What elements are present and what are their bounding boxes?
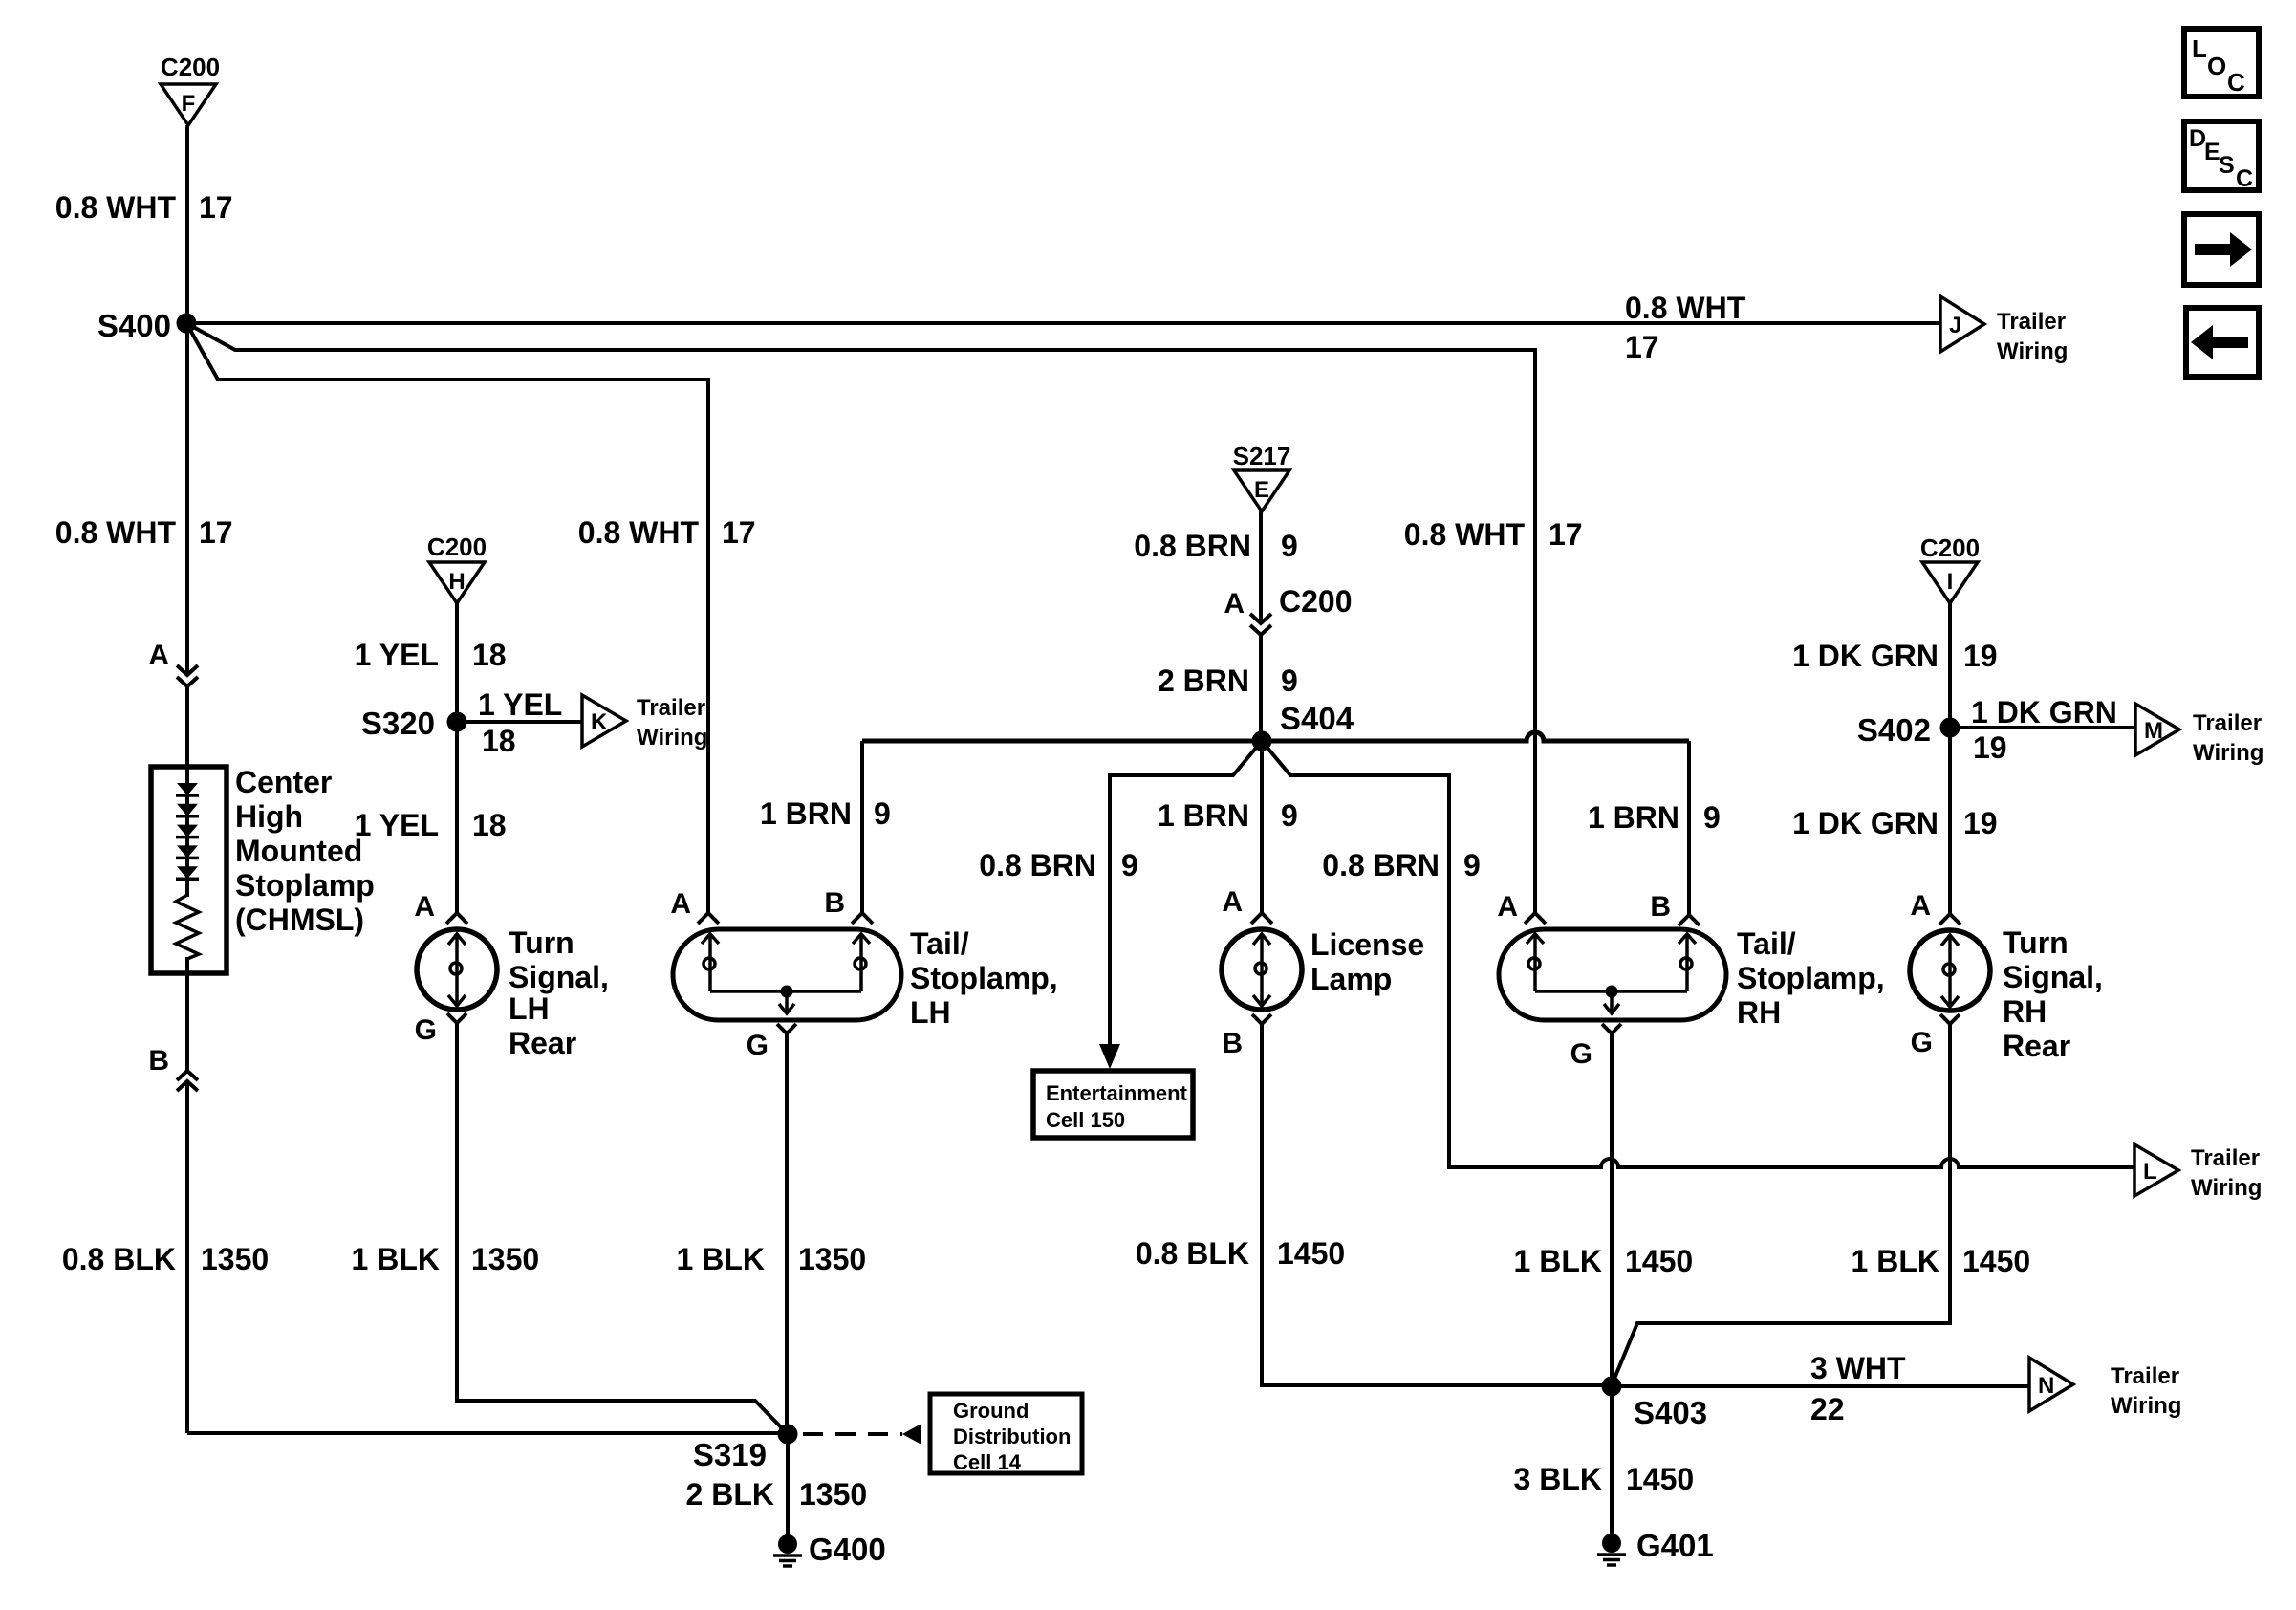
back arrow legend box: [2186, 308, 2259, 377]
svg-text:B: B: [1222, 1028, 1243, 1059]
svg-text:N: N: [2038, 1373, 2054, 1399]
svg-text:Turn: Turn: [2003, 925, 2069, 960]
wire 1 BLK 1350 from turn signal LH to S319: [457, 1023, 788, 1434]
CHMSL LED diodes: [177, 783, 198, 795]
tail stoplamp RH filament A: [1533, 934, 1537, 991]
tail stoplamp RH filament B: [1685, 934, 1689, 991]
entertainment cell 150 box: [1033, 1071, 1193, 1138]
svg-text:A: A: [1224, 588, 1245, 620]
svg-text:A: A: [148, 640, 169, 671]
splice S320: [447, 712, 467, 732]
svg-text:0.8 BRN: 0.8 BRN: [1322, 848, 1440, 882]
DESC legend box: [2184, 121, 2259, 190]
wire from resistor to connector B: [185, 957, 189, 1071]
svg-text:17: 17: [199, 515, 233, 550]
splice S402: [1940, 718, 1960, 738]
svg-text:G: G: [747, 1030, 769, 1061]
svg-text:A: A: [414, 891, 435, 923]
svg-text:0.8 BLK: 0.8 BLK: [1136, 1236, 1249, 1271]
svg-text:0.8 BRN: 0.8 BRN: [1134, 529, 1251, 563]
svg-text:G401: G401: [1636, 1528, 1714, 1563]
svg-text:C: C: [2236, 165, 2253, 192]
svg-text:0.8 WHT: 0.8 WHT: [578, 515, 700, 550]
wire 0.8 BLK 1450 from license lamp to S403: [1262, 1024, 1612, 1385]
wire 0.8 WHT 17 from S400 to tail stoplamp RH feed: [186, 323, 1535, 913]
svg-text:0.8 WHT: 0.8 WHT: [1404, 517, 1526, 552]
trailer wiring connector N: [2029, 1358, 2073, 1411]
svg-text:Wiring: Wiring: [1997, 338, 2068, 364]
svg-text:High: High: [235, 799, 303, 834]
svg-text:18: 18: [472, 638, 507, 672]
turn signal RH rear lamp: [1910, 930, 1990, 1011]
svg-text:Trailer: Trailer: [2193, 710, 2262, 736]
svg-text:A: A: [1910, 890, 1931, 922]
svg-text:1350: 1350: [471, 1242, 539, 1276]
svg-text:B: B: [1650, 891, 1671, 923]
wire 1 BRN 9 from S404 to license lamp A: [1260, 741, 1264, 913]
svg-text:1 BLK: 1 BLK: [677, 1242, 765, 1276]
svg-text:Lamp: Lamp: [1310, 962, 1392, 996]
svg-text:1 BLK: 1 BLK: [1514, 1244, 1602, 1278]
svg-text:2 BRN: 2 BRN: [1158, 664, 1249, 698]
svg-text:Wiring: Wiring: [2111, 1393, 2181, 1419]
svg-text:1 YEL: 1 YEL: [355, 638, 439, 672]
svg-text:S402: S402: [1857, 712, 1931, 748]
svg-text:Wiring: Wiring: [2191, 1175, 2262, 1201]
tail stoplamp RH oval housing: [1499, 929, 1726, 1020]
svg-text:LH: LH: [509, 991, 550, 1026]
svg-text:1350: 1350: [799, 1477, 867, 1512]
svg-text:(CHMSL): (CHMSL): [235, 903, 364, 937]
LOC legend box: [2184, 29, 2259, 97]
svg-text:3 BLK: 3 BLK: [1514, 1462, 1602, 1496]
svg-text:Tail/: Tail/: [1737, 926, 1796, 961]
svg-text:1450: 1450: [1277, 1236, 1345, 1271]
svg-text:1 BRN: 1 BRN: [1588, 800, 1679, 835]
svg-text:B: B: [148, 1045, 169, 1077]
svg-text:1 DK GRN: 1 DK GRN: [1792, 806, 1939, 840]
wire 0.8 BRN 9 from S404 to entertainment cell: [1110, 741, 1262, 1046]
svg-text:17: 17: [1549, 517, 1583, 552]
svg-text:0.8 BRN: 0.8 BRN: [979, 848, 1096, 882]
svg-text:9: 9: [1281, 529, 1298, 563]
wire 1 DK GRN 19 from C200-I to S402: [1948, 603, 1952, 728]
svg-text:1 BLK: 1 BLK: [352, 1242, 440, 1276]
turn signal LH rear lamp: [417, 929, 497, 1010]
svg-text:19: 19: [1963, 806, 1998, 840]
wire 0.8 WHT 17 from S400 to trailer wiring J: [186, 321, 1940, 325]
svg-text:S404: S404: [1280, 701, 1354, 736]
wire 0.8 WHT 17 from S400 to tail stoplamp LH feed: [186, 323, 708, 913]
svg-text:1450: 1450: [1625, 1244, 1693, 1278]
svg-text:1350: 1350: [798, 1242, 866, 1276]
svg-text:Turn: Turn: [509, 925, 574, 960]
wire 0.8 BLK 1350 from CHMSL-B to S319: [185, 1081, 189, 1433]
splice S319: [778, 1425, 798, 1445]
trailer wiring connector K: [582, 695, 626, 747]
svg-text:1350: 1350: [201, 1242, 269, 1276]
svg-text:0.8 WHT: 0.8 WHT: [55, 190, 177, 225]
svg-text:L: L: [2192, 34, 2207, 63]
wire 2 BLK 1350 from S319 to G400: [786, 1434, 790, 1543]
svg-text:License: License: [1310, 927, 1424, 962]
svg-text:22: 22: [1810, 1392, 1845, 1426]
wire 1 BRN 9 drop to tail stoplamp LH B: [860, 741, 864, 913]
svg-text:3 WHT: 3 WHT: [1810, 1351, 1906, 1385]
wire 2 BRN 9 from C200 to S404: [1259, 635, 1263, 741]
svg-text:Cell 150: Cell 150: [1046, 1108, 1125, 1132]
svg-text:Wiring: Wiring: [2193, 740, 2264, 766]
svg-text:1 BRN: 1 BRN: [1158, 798, 1249, 833]
svg-text:Entertainment: Entertainment: [1046, 1081, 1188, 1105]
wire 1 DK GRN 19 from S402 to turn signal RH: [1948, 728, 1952, 914]
svg-text:Cell 14: Cell 14: [953, 1450, 1022, 1474]
svg-text:RH: RH: [1737, 995, 1781, 1030]
svg-text:Mounted: Mounted: [235, 834, 362, 868]
svg-text:2 BLK: 2 BLK: [686, 1477, 774, 1512]
wire 1 BLK 1350 from tail stoplamp LH to S319: [785, 1033, 789, 1434]
svg-text:0.8 WHT: 0.8 WHT: [1625, 291, 1746, 325]
ground distribution cell 14 box: [930, 1394, 1082, 1473]
wire 2 BRN 9 bus S404 with hop over RH feed: [862, 732, 1689, 741]
svg-text:Wiring: Wiring: [637, 725, 707, 751]
svg-text:C200: C200: [1920, 533, 1980, 562]
wire 3 BLK 1450 from S403 to G401: [1610, 1386, 1614, 1543]
tail stoplamp LH oval housing: [673, 929, 901, 1020]
wire 1 BLK 1450 from turn signal RH to S403: [1612, 1024, 1950, 1385]
svg-text:M: M: [2144, 718, 2163, 744]
svg-text:9: 9: [1121, 848, 1138, 882]
svg-text:Ground: Ground: [953, 1399, 1029, 1423]
svg-text:O: O: [2207, 52, 2226, 80]
license lamp: [1222, 929, 1302, 1010]
svg-text:K: K: [591, 709, 608, 735]
svg-text:Rear: Rear: [2003, 1029, 2070, 1063]
center high mounted stoplamp CHMSL box: [151, 767, 227, 973]
svg-text:LH: LH: [910, 995, 951, 1030]
wire 1 BLK 1450 from tail stoplamp RH to S403: [1610, 1033, 1614, 1386]
svg-text:0.8 WHT: 0.8 WHT: [55, 515, 177, 550]
svg-text:RH: RH: [2003, 994, 2047, 1029]
trailer wiring connector M: [2135, 704, 2179, 755]
wire 0.8 BRN 9 from S217-E: [1259, 511, 1263, 623]
svg-text:Trailer: Trailer: [2191, 1145, 2260, 1171]
wire 0.8 WHT 17 from S400 down to CHMSL connector A: [185, 323, 189, 675]
svg-text:Stoplamp: Stoplamp: [235, 868, 375, 903]
dashed reference to ground distribution: [803, 1432, 902, 1436]
svg-text:19: 19: [1973, 730, 2007, 765]
svg-text:9: 9: [1463, 848, 1481, 882]
svg-text:18: 18: [482, 724, 516, 758]
wire 1 YEL 18 from C200-H to S320: [455, 603, 459, 722]
svg-text:G: G: [1911, 1027, 1933, 1058]
trailer wiring connector J: [1940, 296, 1984, 352]
wire into CHMSL lamp: [185, 686, 189, 897]
svg-text:Tail/: Tail/: [910, 926, 969, 961]
svg-text:Trailer: Trailer: [637, 695, 705, 721]
svg-text:9: 9: [1703, 800, 1721, 835]
svg-text:1450: 1450: [1626, 1462, 1694, 1496]
svg-text:C: C: [2227, 68, 2245, 97]
svg-text:S400: S400: [97, 308, 171, 343]
wire 3 WHT 22 from S403 to trailer wiring N: [1612, 1384, 2029, 1388]
svg-text:1 DK GRN: 1 DK GRN: [1971, 695, 2117, 729]
svg-text:Center: Center: [235, 765, 332, 799]
svg-text:Distribution: Distribution: [953, 1425, 1071, 1448]
svg-text:A: A: [670, 888, 691, 920]
svg-text:Signal,: Signal,: [2003, 960, 2103, 994]
splice S400: [177, 314, 197, 334]
tail stoplamp RH internal bus and ground lead: [1535, 990, 1687, 993]
svg-text:Rear: Rear: [509, 1026, 576, 1060]
CHMSL resistor zigzag: [176, 895, 199, 959]
svg-text:Stoplamp,: Stoplamp,: [1737, 961, 1885, 995]
svg-text:Signal,: Signal,: [509, 960, 609, 994]
splice S403: [1602, 1377, 1622, 1397]
svg-text:L: L: [2143, 1159, 2157, 1185]
svg-text:S320: S320: [361, 706, 435, 741]
trailer wiring connector L: [2134, 1144, 2178, 1196]
wire 1 BRN 9 drop to tail stoplamp RH B: [1687, 741, 1691, 915]
ground G400: [778, 1534, 797, 1554]
forward arrow legend box: [2184, 214, 2259, 285]
svg-text:A: A: [1497, 891, 1518, 923]
tail stoplamp LH filament A: [708, 934, 712, 991]
svg-text:G400: G400: [809, 1532, 886, 1567]
tail stoplamp LH filament B: [859, 934, 863, 991]
wire 1 YEL 18 from S320 to trailer wiring K: [457, 720, 582, 724]
svg-text:C200: C200: [161, 53, 220, 81]
svg-text:9: 9: [1281, 664, 1298, 698]
svg-text:1 BRN: 1 BRN: [760, 796, 852, 831]
svg-text:H: H: [448, 569, 465, 595]
svg-text:18: 18: [472, 808, 507, 842]
svg-text:S319: S319: [693, 1437, 767, 1472]
svg-text:19: 19: [1963, 639, 1998, 673]
wire 0.8 WHT 17 from C200-F to S400: [185, 125, 189, 323]
svg-text:17: 17: [199, 190, 233, 225]
svg-text:G: G: [415, 1014, 437, 1046]
svg-text:1 DK GRN: 1 DK GRN: [1792, 639, 1939, 673]
wire 0.8 BRN 9 from S404 to trailer wiring L: [1262, 741, 2134, 1167]
wire 1 YEL 18 from S320 to turn signal LH: [455, 722, 459, 913]
svg-text:G: G: [1570, 1038, 1592, 1070]
svg-text:F: F: [182, 91, 196, 117]
svg-text:I: I: [1947, 569, 1954, 595]
svg-text:1 BLK: 1 BLK: [1852, 1244, 1939, 1278]
svg-text:17: 17: [722, 515, 756, 550]
svg-text:C200: C200: [1279, 584, 1353, 619]
svg-text:J: J: [1949, 313, 1961, 338]
svg-text:S403: S403: [1634, 1395, 1707, 1430]
svg-text:9: 9: [1281, 798, 1298, 833]
svg-text:Stoplamp,: Stoplamp,: [910, 961, 1058, 995]
svg-text:1 YEL: 1 YEL: [478, 687, 562, 722]
svg-text:S217: S217: [1233, 442, 1291, 470]
svg-text:1450: 1450: [1962, 1244, 2030, 1278]
tail stoplamp LH internal bus and ground lead: [710, 990, 861, 993]
svg-text:17: 17: [1625, 330, 1659, 364]
svg-text:1 YEL: 1 YEL: [355, 808, 439, 842]
svg-text:C200: C200: [427, 533, 487, 561]
ground G401: [1602, 1534, 1621, 1553]
splice S404: [1252, 731, 1272, 751]
svg-text:Trailer: Trailer: [2111, 1363, 2179, 1389]
svg-text:S: S: [2219, 152, 2235, 179]
svg-text:Trailer: Trailer: [1997, 309, 2066, 335]
svg-text:E: E: [1254, 477, 1269, 503]
svg-text:0.8 BLK: 0.8 BLK: [62, 1242, 176, 1276]
svg-text:A: A: [1222, 886, 1243, 918]
wire 1 DK GRN 19 from S402 to trailer wiring M: [1950, 726, 2135, 729]
svg-text:9: 9: [874, 796, 891, 831]
svg-text:B: B: [824, 887, 845, 919]
